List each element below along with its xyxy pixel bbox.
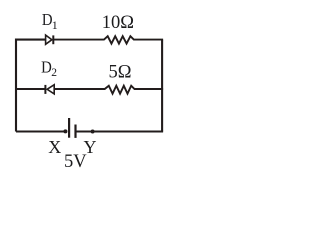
svg-text:1: 1 (52, 18, 58, 32)
svg-text:X: X (48, 137, 61, 157)
svg-text:5Ω: 5Ω (109, 62, 132, 82)
svg-text:5V: 5V (64, 152, 87, 172)
svg-text:2: 2 (51, 67, 57, 79)
svg-text:10Ω: 10Ω (102, 13, 134, 33)
svg-text:D: D (41, 59, 52, 77)
